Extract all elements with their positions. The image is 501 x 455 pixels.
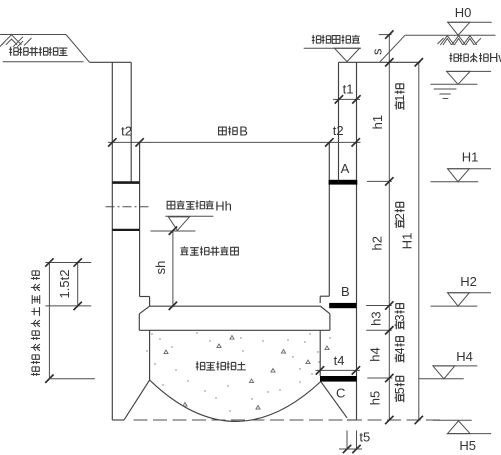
svg-text:h3: h3	[369, 311, 384, 325]
s dimension terminator top	[379, 34, 392, 36]
sealing concrete ledge top surface	[150, 305, 321, 307]
svg-text:s: s	[370, 48, 385, 55]
H5 level line	[447, 433, 491, 435]
Hw water sub-lines	[434, 89, 457, 99]
segment label 第1段	[393, 84, 407, 110]
chain extension line B level	[366, 305, 392, 307]
Hw water line	[431, 83, 478, 85]
H1 level line	[431, 181, 479, 183]
svg-text:4: 4	[393, 347, 407, 354]
t1 dimension line	[333, 98, 360, 100]
H5 triangle (inverted)	[448, 421, 471, 434]
H0 elevation triangle	[448, 22, 470, 35]
label underline 起沉开挖深度	[3, 61, 84, 63]
right wall inner face t2	[328, 142, 330, 296]
label 顶管底标高 (pipe invert elevation)	[167, 200, 214, 209]
excavation slope right	[380, 35, 406, 62]
dim text 内径 (inner diameter)	[219, 126, 238, 135]
right cutting edge tip flat	[347, 419, 357, 421]
svg-text:2: 2	[393, 213, 407, 220]
t5 dimension line	[339, 448, 362, 450]
svg-text:t2: t2	[333, 123, 344, 138]
传递段 extension line bottom	[49, 378, 95, 380]
left cutting edge tip flat	[112, 419, 124, 421]
left wall inner face upper t1	[130, 62, 132, 181]
终沉顶标高 underline	[304, 47, 361, 49]
chain ticks	[385, 30, 393, 38]
label 传递刃脚水土压力段 (cutting edge load transfer segment)	[31, 271, 40, 376]
left wall step side	[149, 297, 151, 307]
svg-text:Hh: Hh	[215, 199, 232, 214]
segment label 第3段	[393, 304, 407, 330]
soil hatch top-left	[0, 35, 32, 47]
label 抗浮水位 (anti-floating water level)	[449, 53, 488, 62]
left groove side	[138, 314, 140, 331]
svg-text:h2: h2	[370, 236, 385, 250]
cutting edge bottom dashed level line	[134, 419, 441, 421]
1.5t2 extension line top	[45, 262, 91, 264]
H1 triangle	[448, 169, 470, 182]
segment label 第2段	[393, 202, 407, 228]
left groove bevel	[139, 306, 149, 314]
joint band C	[320, 376, 357, 382]
pot-bottom excavation curve (sealing concrete underside)	[150, 380, 321, 421]
H4 triangle	[433, 366, 455, 379]
svg-text:1.5t2: 1.5t2	[57, 270, 72, 299]
svg-text:B: B	[239, 124, 248, 139]
pipe opening block bottom edge (left wall)	[112, 229, 139, 231]
H5 symbol top line	[433, 419, 472, 421]
right groove bevel	[320, 306, 330, 314]
chain extension line A level	[367, 180, 392, 182]
pipe invert level line	[151, 230, 196, 232]
ground surface line top-left	[0, 34, 66, 36]
H0 label line	[447, 21, 492, 23]
label 终沉顶标高 (final top elevation)	[312, 35, 360, 44]
svg-text:t5: t5	[359, 430, 370, 445]
segment label 第5段	[393, 376, 407, 402]
终沉顶标高 elevation triangle	[335, 48, 360, 61]
right wall inner face upper t1	[338, 62, 340, 180]
svg-text:A: A	[341, 161, 350, 176]
svg-text:C: C	[336, 385, 345, 400]
right cutting edge bevel	[321, 382, 347, 418]
Hw triangle	[447, 71, 470, 84]
svg-text:5: 5	[393, 387, 407, 394]
chain extension line ledge bottom	[366, 329, 392, 331]
sealing concrete ledge bottom line	[139, 329, 330, 331]
right wall outer face	[356, 62, 358, 420]
svg-text:Hw: Hw	[489, 50, 501, 65]
overall H1 dimension chain line	[418, 62, 420, 420]
svg-text:h5: h5	[368, 391, 383, 405]
svg-text:h1: h1	[370, 115, 385, 129]
svg-text:H1: H1	[400, 233, 415, 250]
left wall outer face	[111, 62, 113, 420]
svg-text:1: 1	[393, 95, 407, 102]
svg-text:H1: H1	[462, 150, 479, 165]
t4 dimension line	[316, 369, 361, 371]
right groove side	[329, 314, 331, 331]
segment label 第4段	[393, 337, 407, 363]
svg-text:sh: sh	[153, 261, 168, 275]
caisson top line left (bench + wall top)	[90, 61, 132, 63]
svg-text:3: 3	[393, 314, 407, 321]
H4 level line	[419, 378, 464, 380]
svg-text:H2: H2	[460, 274, 477, 289]
left wall inner face lower	[149, 330, 151, 380]
svg-text:H4: H4	[456, 349, 473, 364]
left cutting edge bevel	[124, 380, 150, 420]
concrete stipple dots and aggregate triangles	[146, 332, 330, 411]
svg-text:H0: H0	[455, 5, 472, 20]
svg-text:t4: t4	[334, 353, 345, 368]
svg-text:B: B	[341, 284, 350, 299]
svg-text:h4: h4	[368, 347, 383, 361]
H1 symbol top line	[448, 168, 492, 170]
right wall step side	[319, 296, 321, 303]
joint band B	[329, 303, 356, 308]
label 管底作业空间 (working space under pipe)	[180, 246, 238, 255]
excavation slope left	[66, 35, 90, 63]
pipe opening block top edge (left wall)	[112, 181, 139, 184]
segment dimension chain line	[388, 35, 390, 420]
left wall step tread	[140, 296, 150, 298]
1.5t2 dimension line	[77, 263, 79, 306]
caisson top line right (wall top + bench + dim terminator)	[339, 61, 421, 63]
传递段 dimension line	[48, 263, 50, 379]
H2 level line	[431, 305, 478, 307]
right wall inner face lower	[319, 330, 321, 376]
t5 extension lines	[347, 431, 357, 450]
label 起沉开挖深度 (initial sinking excavation depth)	[9, 47, 67, 56]
顶管底标高 label underline	[165, 215, 213, 217]
pipe axis centerline (dash-dot)	[106, 206, 150, 208]
ground surface line right (H0)	[405, 34, 495, 36]
H2 symbol top line	[448, 292, 492, 294]
顶管底标高 level triangle	[168, 217, 189, 231]
joint band A (steel shoe ring)	[329, 180, 358, 185]
right wall step tread	[320, 295, 329, 297]
svg-text:H5: H5	[459, 438, 476, 453]
sh dimension line	[172, 231, 174, 306]
svg-text:t2: t2	[121, 124, 132, 139]
1.5t2 extension line bottom	[45, 305, 91, 307]
Hw symbol top line	[446, 70, 491, 72]
chain extension line C level	[367, 377, 392, 379]
svg-text:t1: t1	[343, 82, 354, 97]
H2 triangle	[448, 293, 470, 306]
left wall inner face t2	[139, 142, 141, 296]
inner diameter B dimension line	[108, 141, 361, 143]
H4 symbol top line	[433, 365, 478, 367]
label 封底混凝土 (bottom sealing concrete)	[196, 361, 246, 370]
soil hatch under H0	[438, 36, 482, 45]
